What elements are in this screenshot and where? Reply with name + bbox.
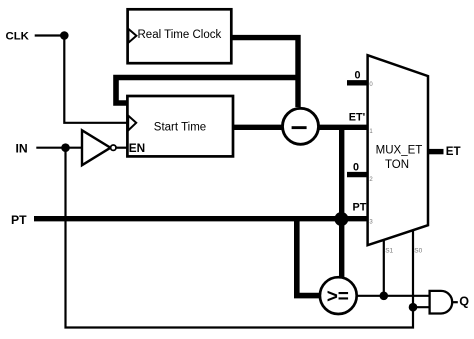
- wire mux input0 stub thick: [347, 80, 368, 85]
- svg-text:PT: PT: [11, 213, 27, 227]
- wire feedback to Start Time thick: [116, 78, 298, 104]
- block Start Time: [127, 96, 233, 156]
- svg-text:ET: ET: [446, 145, 461, 158]
- wire ET' line thick: [318, 125, 369, 130]
- svg-text:MUX_ET: MUX_ET: [376, 144, 423, 156]
- svg-text:CLK: CLK: [6, 31, 30, 43]
- node S1 junction: [380, 292, 389, 301]
- wire IN vertical feedback: [66, 148, 414, 328]
- wire IN lead: [36, 147, 82, 149]
- svg-text:>=: >=: [327, 286, 349, 307]
- node S0 junction: [409, 303, 418, 312]
- svg-text:S1: S1: [385, 248, 393, 255]
- wire mux input2 stub thick: [347, 172, 368, 177]
- block Real Time Clock: [128, 9, 232, 63]
- svg-text:Q: Q: [459, 295, 469, 309]
- and gate: [430, 291, 458, 314]
- svg-text:TON: TON: [385, 159, 409, 171]
- svg-text:EN: EN: [129, 141, 145, 155]
- wire ET output stub thick: [429, 149, 444, 154]
- wire RTC output thick: [231, 38, 298, 107]
- wire Start Time output thick: [232, 125, 284, 130]
- subtractor circle: [283, 108, 319, 144]
- wire PT main thick: [34, 216, 368, 221]
- wire CLK vertical: [64, 36, 127, 123]
- mux MUX_ET TON: [368, 55, 428, 245]
- wire S0 select: [412, 231, 414, 308]
- svg-text:ET': ET': [349, 111, 366, 123]
- wire ET' down to comparator thick: [339, 127, 344, 278]
- comparator >= circle: [320, 277, 357, 314]
- node PT big junction: [334, 212, 348, 226]
- node IN junction: [61, 143, 70, 152]
- wire comparator output: [357, 295, 430, 297]
- wire CLK lead: [35, 34, 65, 36]
- svg-text:S0: S0: [414, 248, 422, 255]
- svg-text:Real Time Clock: Real Time Clock: [138, 29, 222, 41]
- wire S0 to AND gate: [413, 306, 430, 308]
- wire S1 select: [383, 240, 385, 296]
- svg-text:Start Time: Start Time: [154, 122, 206, 134]
- svg-text:0: 0: [354, 70, 360, 82]
- inverter EN buffer: [82, 130, 127, 165]
- wire PT branch to comparator thick: [297, 219, 321, 296]
- node CLK junction: [60, 31, 69, 40]
- svg-text:0: 0: [353, 162, 359, 174]
- svg-text:PT: PT: [353, 202, 367, 214]
- svg-text:IN: IN: [16, 141, 28, 155]
